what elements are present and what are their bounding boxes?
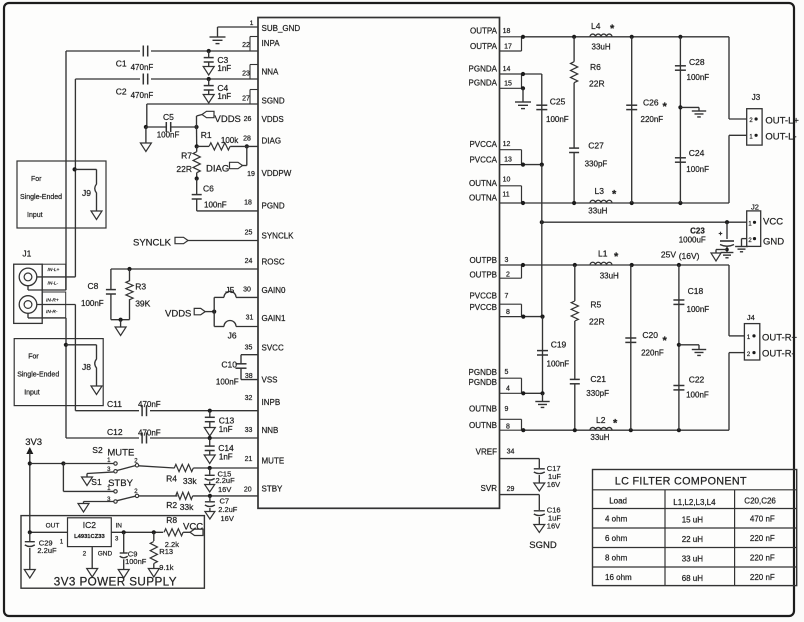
svg-text:31: 31 [246,315,254,322]
svg-text:J3: J3 [752,93,761,102]
svg-text:2: 2 [506,272,510,279]
svg-text:C11: C11 [107,399,122,409]
svg-text:24: 24 [245,258,253,265]
svg-text:DIAG: DIAG [262,137,282,146]
svg-text:8: 8 [506,424,510,431]
svg-text:C21: C21 [590,374,606,384]
svg-text:26: 26 [244,116,252,123]
svg-text:VDDS: VDDS [262,115,284,124]
svg-text:R2: R2 [166,500,177,510]
svg-text:30: 30 [243,287,251,294]
svg-text:C25: C25 [550,97,566,107]
svg-text:100nF: 100nF [546,115,569,124]
svg-text:S2: S2 [92,445,103,455]
svg-text:8: 8 [506,309,510,316]
svg-text:C26: C26 [643,98,659,108]
svg-text:STBY: STBY [262,485,284,494]
svg-text:100nF: 100nF [687,305,710,314]
svg-text:R5: R5 [590,300,601,310]
svg-text:220 nF: 220 nF [750,573,775,582]
svg-text:VDDS: VDDS [215,114,241,125]
svg-text:2.2uF: 2.2uF [216,476,236,485]
svg-text:68 uH: 68 uH [682,574,704,583]
svg-text:28: 28 [243,136,251,143]
svg-text:OUTNB: OUTNB [469,405,497,414]
svg-text:NNB: NNB [262,426,279,435]
svg-text:IN: IN [116,523,123,530]
svg-text:22R: 22R [176,164,192,174]
svg-text:OUTPA: OUTPA [470,42,498,51]
svg-text:OUTNB: OUTNB [469,421,497,430]
svg-text:C5: C5 [163,112,174,122]
svg-text:(16V): (16V) [679,251,700,261]
svg-text:3V3 POWER SUPPLY: 3V3 POWER SUPPLY [54,576,177,589]
svg-text:LC FILTER COMPONENT: LC FILTER COMPONENT [615,476,747,488]
svg-text:L2: L2 [596,415,606,425]
svg-text:PVCCA: PVCCA [469,140,497,149]
svg-text:100nF: 100nF [547,360,570,369]
svg-text:STBY: STBY [108,478,133,489]
svg-text:R3: R3 [135,282,146,292]
svg-text:2.2uF: 2.2uF [218,505,238,514]
svg-text:MUTE: MUTE [107,448,134,459]
svg-text:*: * [614,251,619,263]
svg-text:6 ohm: 6 ohm [605,534,628,543]
svg-text:470 nF: 470 nF [750,515,775,524]
svg-text:J5: J5 [225,285,234,295]
svg-text:C10: C10 [221,360,237,370]
svg-text:20: 20 [244,486,252,493]
svg-text:470nF: 470nF [131,63,154,72]
svg-text:13: 13 [504,157,512,164]
svg-text:OUTPB: OUTPB [469,271,497,280]
svg-text:R4: R4 [166,474,177,484]
svg-text:4: 4 [506,386,510,393]
svg-text:100nF: 100nF [686,165,709,174]
svg-text:PGNDA: PGNDA [469,65,498,74]
svg-text:C27: C27 [588,141,604,151]
svg-text:VSS: VSS [262,376,278,385]
svg-text:15: 15 [504,81,512,88]
svg-text:C14: C14 [218,443,234,453]
svg-text:C20,C26: C20,C26 [744,497,776,506]
svg-text:C2: C2 [116,87,127,97]
svg-text:15 uH: 15 uH [682,516,704,525]
svg-text:29: 29 [507,486,515,493]
svg-text:INPA: INPA [262,39,281,48]
svg-text:IN-R+: IN-R+ [46,298,59,304]
svg-text:OUT: OUT [46,523,60,530]
svg-text:14: 14 [503,66,511,73]
svg-text:OUTPB: OUTPB [469,256,497,265]
svg-text:C19: C19 [551,340,567,350]
svg-text:2.2uF: 2.2uF [37,546,57,555]
svg-text:OUT-L-: OUT-L- [765,132,796,143]
svg-text:22: 22 [242,42,250,49]
svg-text:GND: GND [763,237,784,248]
svg-text:100nF: 100nF [81,299,104,308]
svg-text:33uH: 33uH [600,272,619,281]
svg-text:OUT-R-: OUT-R- [762,349,795,360]
svg-text:For: For [28,354,39,361]
svg-text:470nF: 470nF [138,400,161,409]
svg-text:100nF: 100nF [157,131,180,140]
svg-text:VDDPW: VDDPW [262,169,292,178]
svg-text:Input: Input [27,212,43,219]
svg-text:PGNDA: PGNDA [469,79,498,88]
svg-text:VREF: VREF [476,448,497,457]
svg-text:220nF: 220nF [641,115,664,124]
svg-text:J2: J2 [751,203,759,212]
svg-text:VCC: VCC [183,522,203,533]
svg-text:GAIN0: GAIN0 [262,286,287,295]
svg-text:L3: L3 [595,186,605,196]
svg-text:C13: C13 [219,416,235,426]
svg-text:DIAG: DIAG [206,164,229,175]
svg-text:IN-R-: IN-R- [46,309,58,315]
svg-text:NNA: NNA [262,68,280,77]
svg-text:GND: GND [98,551,113,558]
svg-text:PGNDB: PGNDB [469,368,497,377]
svg-text:R7: R7 [181,151,192,161]
svg-text:1000uF: 1000uF [679,236,706,245]
svg-text:For: For [31,176,42,183]
svg-text:L1: L1 [598,249,608,259]
svg-text:1nF: 1nF [217,92,231,101]
svg-text:33: 33 [245,427,253,434]
svg-text:3V3: 3V3 [25,437,42,448]
svg-text:33uH: 33uH [588,207,607,216]
svg-text:L1,L2,L3,L4: L1,L2,L3,L4 [673,498,716,507]
svg-text:Single-Ended: Single-Ended [17,372,59,379]
svg-text:33k: 33k [183,476,197,486]
svg-text:35: 35 [245,345,253,352]
svg-text:C6: C6 [203,184,214,194]
svg-text:SYNCLK: SYNCLK [262,232,295,241]
svg-text:PGND: PGND [262,202,285,211]
svg-text:MUTE: MUTE [262,457,285,466]
svg-text:100nF: 100nF [687,73,710,82]
svg-text:C20: C20 [642,330,658,340]
svg-text:1nF: 1nF [217,64,231,73]
svg-text:R1: R1 [201,130,212,140]
svg-text:S1: S1 [91,477,102,487]
svg-text:J8: J8 [82,362,91,372]
svg-text:22R: 22R [589,79,605,89]
svg-text:9: 9 [505,406,509,413]
svg-text:100nF: 100nF [686,391,709,400]
svg-text:33k: 33k [180,502,194,512]
svg-text:27: 27 [242,96,250,103]
svg-text:C23: C23 [690,227,705,236]
svg-text:*: * [613,418,618,430]
svg-text:100nF: 100nF [204,201,227,210]
svg-text:SGND: SGND [262,97,285,106]
svg-text:7: 7 [505,293,509,300]
svg-text:SYNCLK: SYNCLK [133,238,172,249]
svg-text:33uH: 33uH [590,433,609,442]
svg-text:22 uH: 22 uH [682,535,704,544]
svg-text:21: 21 [245,456,253,463]
svg-text:OUT-L+: OUT-L+ [765,116,799,127]
svg-text:OUTPA: OUTPA [470,27,498,36]
svg-text:5: 5 [505,369,509,376]
svg-text:18: 18 [503,28,511,35]
svg-text:PVCCB: PVCCB [469,292,497,301]
svg-text:OUT-R+: OUT-R+ [762,333,798,344]
svg-text:SVCC: SVCC [262,344,284,353]
svg-text:220 nF: 220 nF [750,554,775,563]
svg-text:C22: C22 [689,375,705,385]
svg-text:330pF: 330pF [586,389,609,398]
svg-text:25V: 25V [661,250,676,260]
svg-text:470nF: 470nF [131,91,154,100]
svg-text:J4: J4 [747,313,755,322]
svg-text:SGND: SGND [529,540,557,551]
svg-text:32: 32 [245,395,253,402]
svg-text:220nF: 220nF [641,349,664,358]
svg-text:C1: C1 [116,59,127,69]
svg-text:VCC: VCC [763,217,783,228]
svg-text:C24: C24 [689,148,705,158]
svg-text:C8: C8 [88,281,99,291]
svg-text:39K: 39K [135,299,150,309]
svg-text:J6: J6 [228,331,237,341]
svg-text:INPB: INPB [262,398,281,407]
svg-text:R6: R6 [590,62,601,72]
svg-text:33 uH: 33 uH [682,555,704,564]
svg-text:1nF: 1nF [219,453,233,462]
svg-text:25: 25 [245,230,253,237]
svg-text:16V: 16V [221,514,234,523]
svg-text:3: 3 [505,257,509,264]
svg-text:10: 10 [503,177,511,184]
svg-text:1nF: 1nF [219,425,233,434]
svg-text:100nF: 100nF [125,557,147,566]
svg-text:18: 18 [244,200,252,207]
svg-text:L4: L4 [591,21,601,31]
svg-text:IC2: IC2 [83,520,97,530]
svg-text:IN-L+: IN-L+ [48,267,60,273]
svg-text:11: 11 [502,192,509,199]
svg-text:2: 2 [83,551,87,558]
svg-text:VDDS: VDDS [165,308,191,319]
svg-text:19: 19 [247,171,255,178]
svg-text:*: * [610,23,615,35]
svg-text:C12: C12 [107,427,123,437]
svg-text:9.1k: 9.1k [159,563,173,572]
svg-text:330pF: 330pF [585,160,608,169]
svg-text:PGNDB: PGNDB [469,378,497,387]
svg-text:OUTNA: OUTNA [469,179,498,188]
svg-text:*: * [663,335,668,347]
svg-text:16V: 16V [547,480,560,489]
svg-text:C18: C18 [688,286,704,296]
svg-text:220 nF: 220 nF [750,534,775,543]
svg-text:4 ohm: 4 ohm [605,515,628,524]
svg-text:Single-Ended: Single-Ended [20,194,62,201]
svg-text:J1: J1 [22,249,31,259]
svg-text:16V: 16V [547,522,560,531]
svg-text:17: 17 [504,44,512,51]
svg-text:J9: J9 [82,188,91,198]
svg-text:OUTNA: OUTNA [469,194,498,203]
svg-text:34: 34 [507,449,515,456]
svg-text:PVCCA: PVCCA [469,156,497,165]
svg-text:Load: Load [609,497,627,506]
svg-text:8 ohm: 8 ohm [605,554,628,563]
svg-text:33uH: 33uH [592,43,611,52]
svg-text:IN-L-: IN-L- [48,281,59,287]
svg-text:*: * [612,189,617,201]
svg-text:GAIN1: GAIN1 [262,314,287,323]
svg-text:23: 23 [242,71,250,78]
svg-text:470nF: 470nF [138,429,161,438]
svg-text:16 ohm: 16 ohm [605,573,632,582]
svg-text:100k: 100k [221,136,239,145]
svg-text:R8: R8 [166,515,177,525]
svg-text:100nF: 100nF [216,378,239,387]
svg-text:SUB_GND: SUB_GND [262,24,301,33]
svg-text:12: 12 [503,141,511,148]
svg-text:22R: 22R [589,317,605,327]
svg-text:Input: Input [24,390,40,397]
svg-text:1: 1 [250,20,254,27]
svg-text:*: * [663,101,668,113]
svg-text:SVR: SVR [481,484,498,493]
svg-text:16V: 16V [218,485,231,494]
svg-text:C28: C28 [689,57,705,67]
svg-text:L4931CZ33: L4931CZ33 [74,534,105,540]
svg-text:PVCCB: PVCCB [469,303,497,312]
svg-text:ROSC: ROSC [262,258,285,267]
svg-text:R13: R13 [159,547,173,556]
